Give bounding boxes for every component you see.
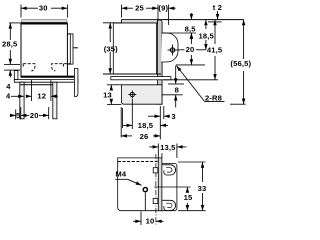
- svg-text:20: 20: [186, 45, 195, 54]
- svg-text:3: 3: [171, 112, 175, 121]
- svg-text:30: 30: [39, 3, 48, 12]
- svg-text:26: 26: [140, 132, 149, 141]
- svg-text:41,5: 41,5: [207, 46, 223, 55]
- svg-text:18,5: 18,5: [199, 32, 215, 41]
- svg-text:5: 5: [16, 111, 21, 120]
- svg-text:M4: M4: [115, 170, 126, 179]
- svg-text:13,5: 13,5: [160, 143, 176, 152]
- svg-text:(35): (35): [104, 44, 118, 53]
- svg-text:t 2: t 2: [213, 3, 222, 12]
- svg-text:(9): (9): [158, 3, 168, 12]
- svg-text:2-R8: 2-R8: [205, 93, 222, 102]
- svg-text:18,5: 18,5: [138, 121, 154, 130]
- svg-text:10: 10: [146, 217, 155, 226]
- svg-text:25: 25: [135, 3, 144, 12]
- svg-text:(56,5): (56,5): [230, 59, 251, 68]
- svg-text:20: 20: [30, 111, 39, 120]
- svg-text:12: 12: [37, 92, 46, 101]
- svg-text:4: 4: [6, 92, 11, 101]
- svg-text:13: 13: [103, 91, 112, 100]
- svg-text:8: 8: [175, 86, 179, 95]
- svg-text:28,5: 28,5: [2, 39, 18, 48]
- svg-text:15: 15: [184, 193, 193, 202]
- svg-text:33: 33: [198, 184, 207, 193]
- svg-text:8,5: 8,5: [185, 24, 197, 33]
- svg-text:4: 4: [6, 82, 11, 91]
